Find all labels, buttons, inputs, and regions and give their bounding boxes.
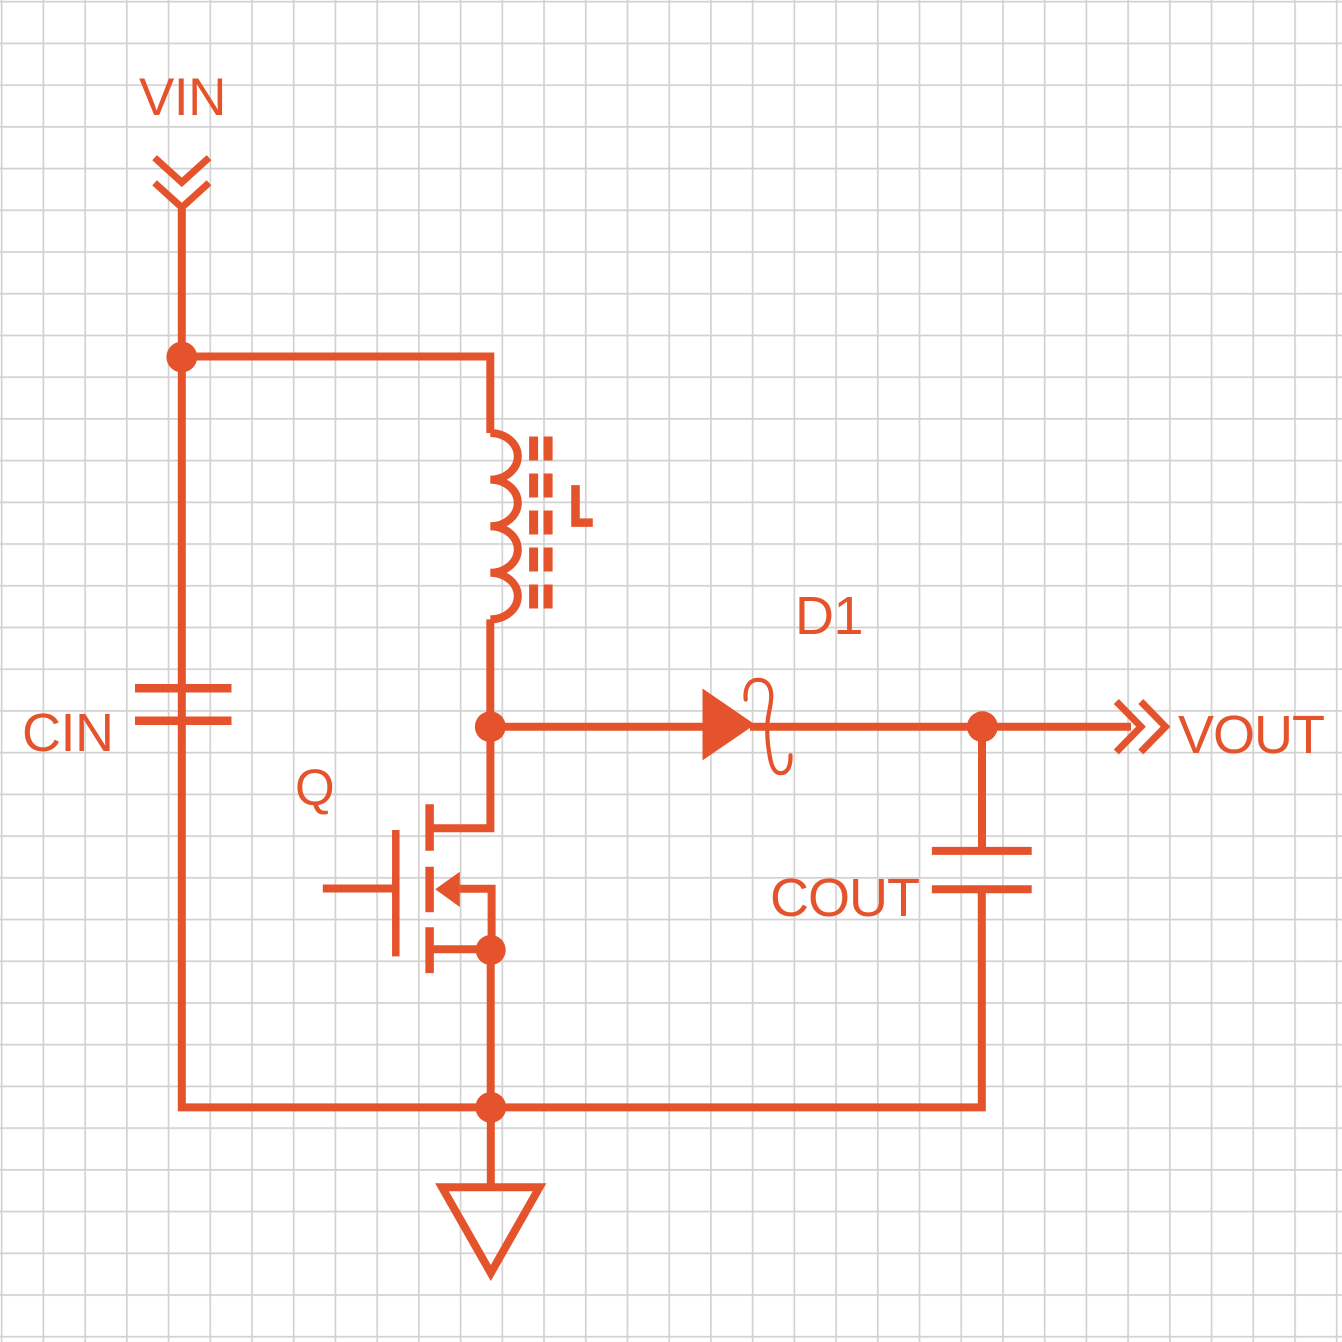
node B (switch node): [475, 711, 506, 742]
transistor Q: [323, 734, 492, 973]
capacitor CIN: [135, 688, 232, 721]
svg-text:CIN: CIN: [22, 703, 114, 763]
wire left rail and bottom rail: [182, 357, 491, 1108]
wire switch node to diode: [490, 723, 710, 731]
port VOUT: [1116, 702, 1165, 752]
port VIN: [155, 158, 209, 208]
capacitor COUT: [932, 851, 1032, 889]
node A (VIN junction): [166, 342, 197, 373]
wire COUT to bottom rail: [491, 889, 982, 1107]
svg-text:COUT: COUT: [770, 868, 919, 928]
node E (source junction): [476, 935, 506, 965]
wire output node to port: [982, 723, 1131, 731]
svg-text:VOUT: VOUT: [1178, 705, 1324, 765]
label L: [571, 485, 593, 527]
svg-text:VIN: VIN: [139, 68, 226, 127]
wire VIN stem: [178, 209, 186, 357]
wire top rail: [182, 357, 491, 434]
wire output node to COUT: [978, 727, 986, 851]
wire diode to output node: [750, 723, 982, 731]
wire source to ground rail: [487, 950, 495, 1107]
diode D1: [703, 680, 791, 773]
ground: [442, 1107, 540, 1273]
wire inductor to switch node: [486, 619, 494, 726]
svg-text:D1: D1: [795, 586, 863, 646]
node C (output junction): [967, 711, 998, 742]
svg-text:Q: Q: [295, 759, 335, 816]
inductor L: [490, 433, 548, 619]
node D (ground junction): [475, 1092, 506, 1123]
